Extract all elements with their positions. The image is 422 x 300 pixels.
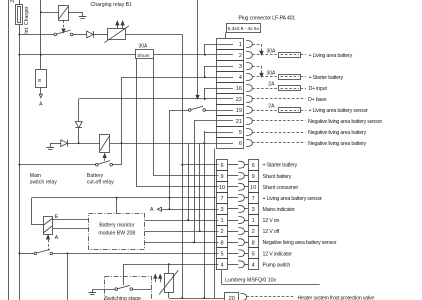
svg-text:2A: 2A (268, 81, 275, 87)
svg-text:3: 3 (252, 207, 255, 213)
svg-text:8: 8 (220, 240, 223, 246)
svg-text:A: A (39, 102, 43, 108)
svg-text:+ Living area battery sensor: + Living area battery sensor (309, 108, 369, 114)
svg-text:12 V on: 12 V on (263, 218, 280, 224)
svg-text:Mains indicator: Mains indicator (263, 207, 296, 213)
svg-text:8: 8 (252, 240, 255, 246)
svg-text:A: A (55, 235, 59, 241)
svg-text:Shunt battery: Shunt battery (263, 174, 292, 180)
svg-text:Plug connector LF-PA 401: Plug connector LF-PA 401 (239, 15, 296, 21)
svg-text:switch relay: switch relay (30, 179, 58, 185)
svg-text:1: 1 (252, 218, 255, 224)
svg-text:+ Living area battery: + Living area battery (309, 53, 353, 59)
svg-text:30A: 30A (267, 70, 277, 76)
svg-text:4: 4 (252, 262, 255, 268)
svg-text:12 V off: 12 V off (263, 229, 280, 235)
svg-text:2: 2 (252, 229, 255, 235)
svg-text:22: 22 (236, 97, 242, 103)
svg-text:Negative living area battery: Negative living area battery (308, 130, 367, 136)
svg-text:2: 2 (239, 53, 242, 59)
svg-text:12 V indicator: 12 V indicator (263, 251, 293, 257)
svg-text:4: 4 (239, 75, 242, 81)
svg-text:20: 20 (229, 296, 235, 300)
svg-text:30A: 30A (267, 48, 277, 54)
svg-text:Heater system frost protection: Heater system frost protection valve (298, 295, 375, 300)
svg-text:7: 7 (252, 196, 255, 202)
svg-text:D+ input: D+ input (309, 86, 328, 92)
svg-text:21: 21 (236, 119, 242, 125)
svg-text:cut-off relay: cut-off relay (87, 179, 114, 185)
svg-text:1: 1 (239, 42, 242, 48)
svg-text:Int. Charger: Int. Charger (24, 6, 30, 34)
svg-text:6: 6 (252, 163, 255, 169)
svg-text:Negative living area battery s: Negative living area battery sensor (308, 119, 382, 125)
svg-text:+ Living area battery sensor: + Living area battery sensor (263, 196, 323, 202)
svg-text:10: 10 (250, 185, 256, 191)
svg-text:module BW 208: module BW 208 (98, 230, 135, 236)
svg-text:5: 5 (252, 251, 255, 257)
svg-text:Battery: Battery (87, 173, 104, 179)
svg-text:9: 9 (252, 174, 255, 180)
svg-text:Charging relay B1: Charging relay B1 (91, 2, 133, 8)
svg-text:6: 6 (220, 163, 223, 169)
svg-text:4: 4 (220, 262, 223, 268)
svg-text:2A: 2A (268, 103, 275, 109)
svg-text:6: 6 (239, 141, 242, 147)
svg-text:Pump switch: Pump switch (263, 262, 291, 268)
svg-text:Lumberg MSFQ/0 10x: Lumberg MSFQ/0 10x (225, 278, 276, 284)
svg-text:+ Starter battery: + Starter battery (309, 75, 344, 81)
svg-text:30A: 30A (139, 43, 149, 49)
svg-text:16: 16 (236, 86, 242, 92)
svg-text:Switching stage: Switching stage (105, 296, 141, 300)
svg-text:+ Starter battery: + Starter battery (263, 163, 298, 169)
svg-text:10: 10 (219, 185, 225, 191)
svg-text:2: 2 (10, 0, 16, 3)
svg-text:19: 19 (236, 108, 242, 114)
svg-text:Main: Main (30, 173, 41, 179)
svg-text:9: 9 (220, 174, 223, 180)
svg-text:1: 1 (220, 218, 223, 224)
svg-text:3: 3 (220, 207, 223, 213)
svg-text:Negative living area battery: Negative living area battery (308, 141, 367, 147)
svg-text:D+ base: D+ base (308, 97, 327, 103)
svg-text:B: B (37, 79, 42, 82)
svg-text:6,3x0,8 - 4x 6x: 6,3x0,8 - 4x 6x (228, 26, 260, 31)
svg-text:2: 2 (220, 229, 223, 235)
svg-text:7: 7 (220, 196, 223, 202)
svg-text:5: 5 (220, 251, 223, 257)
svg-text:3: 3 (239, 64, 242, 70)
svg-text:Shunt consumer: Shunt consumer (263, 185, 299, 191)
svg-text:Negative living area battery s: Negative living area battery sensor (263, 240, 337, 246)
svg-text:Battery monitor: Battery monitor (99, 222, 134, 228)
svg-text:A: A (150, 207, 154, 213)
svg-text:5: 5 (239, 130, 242, 136)
svg-text:Shunt: Shunt (137, 53, 150, 58)
